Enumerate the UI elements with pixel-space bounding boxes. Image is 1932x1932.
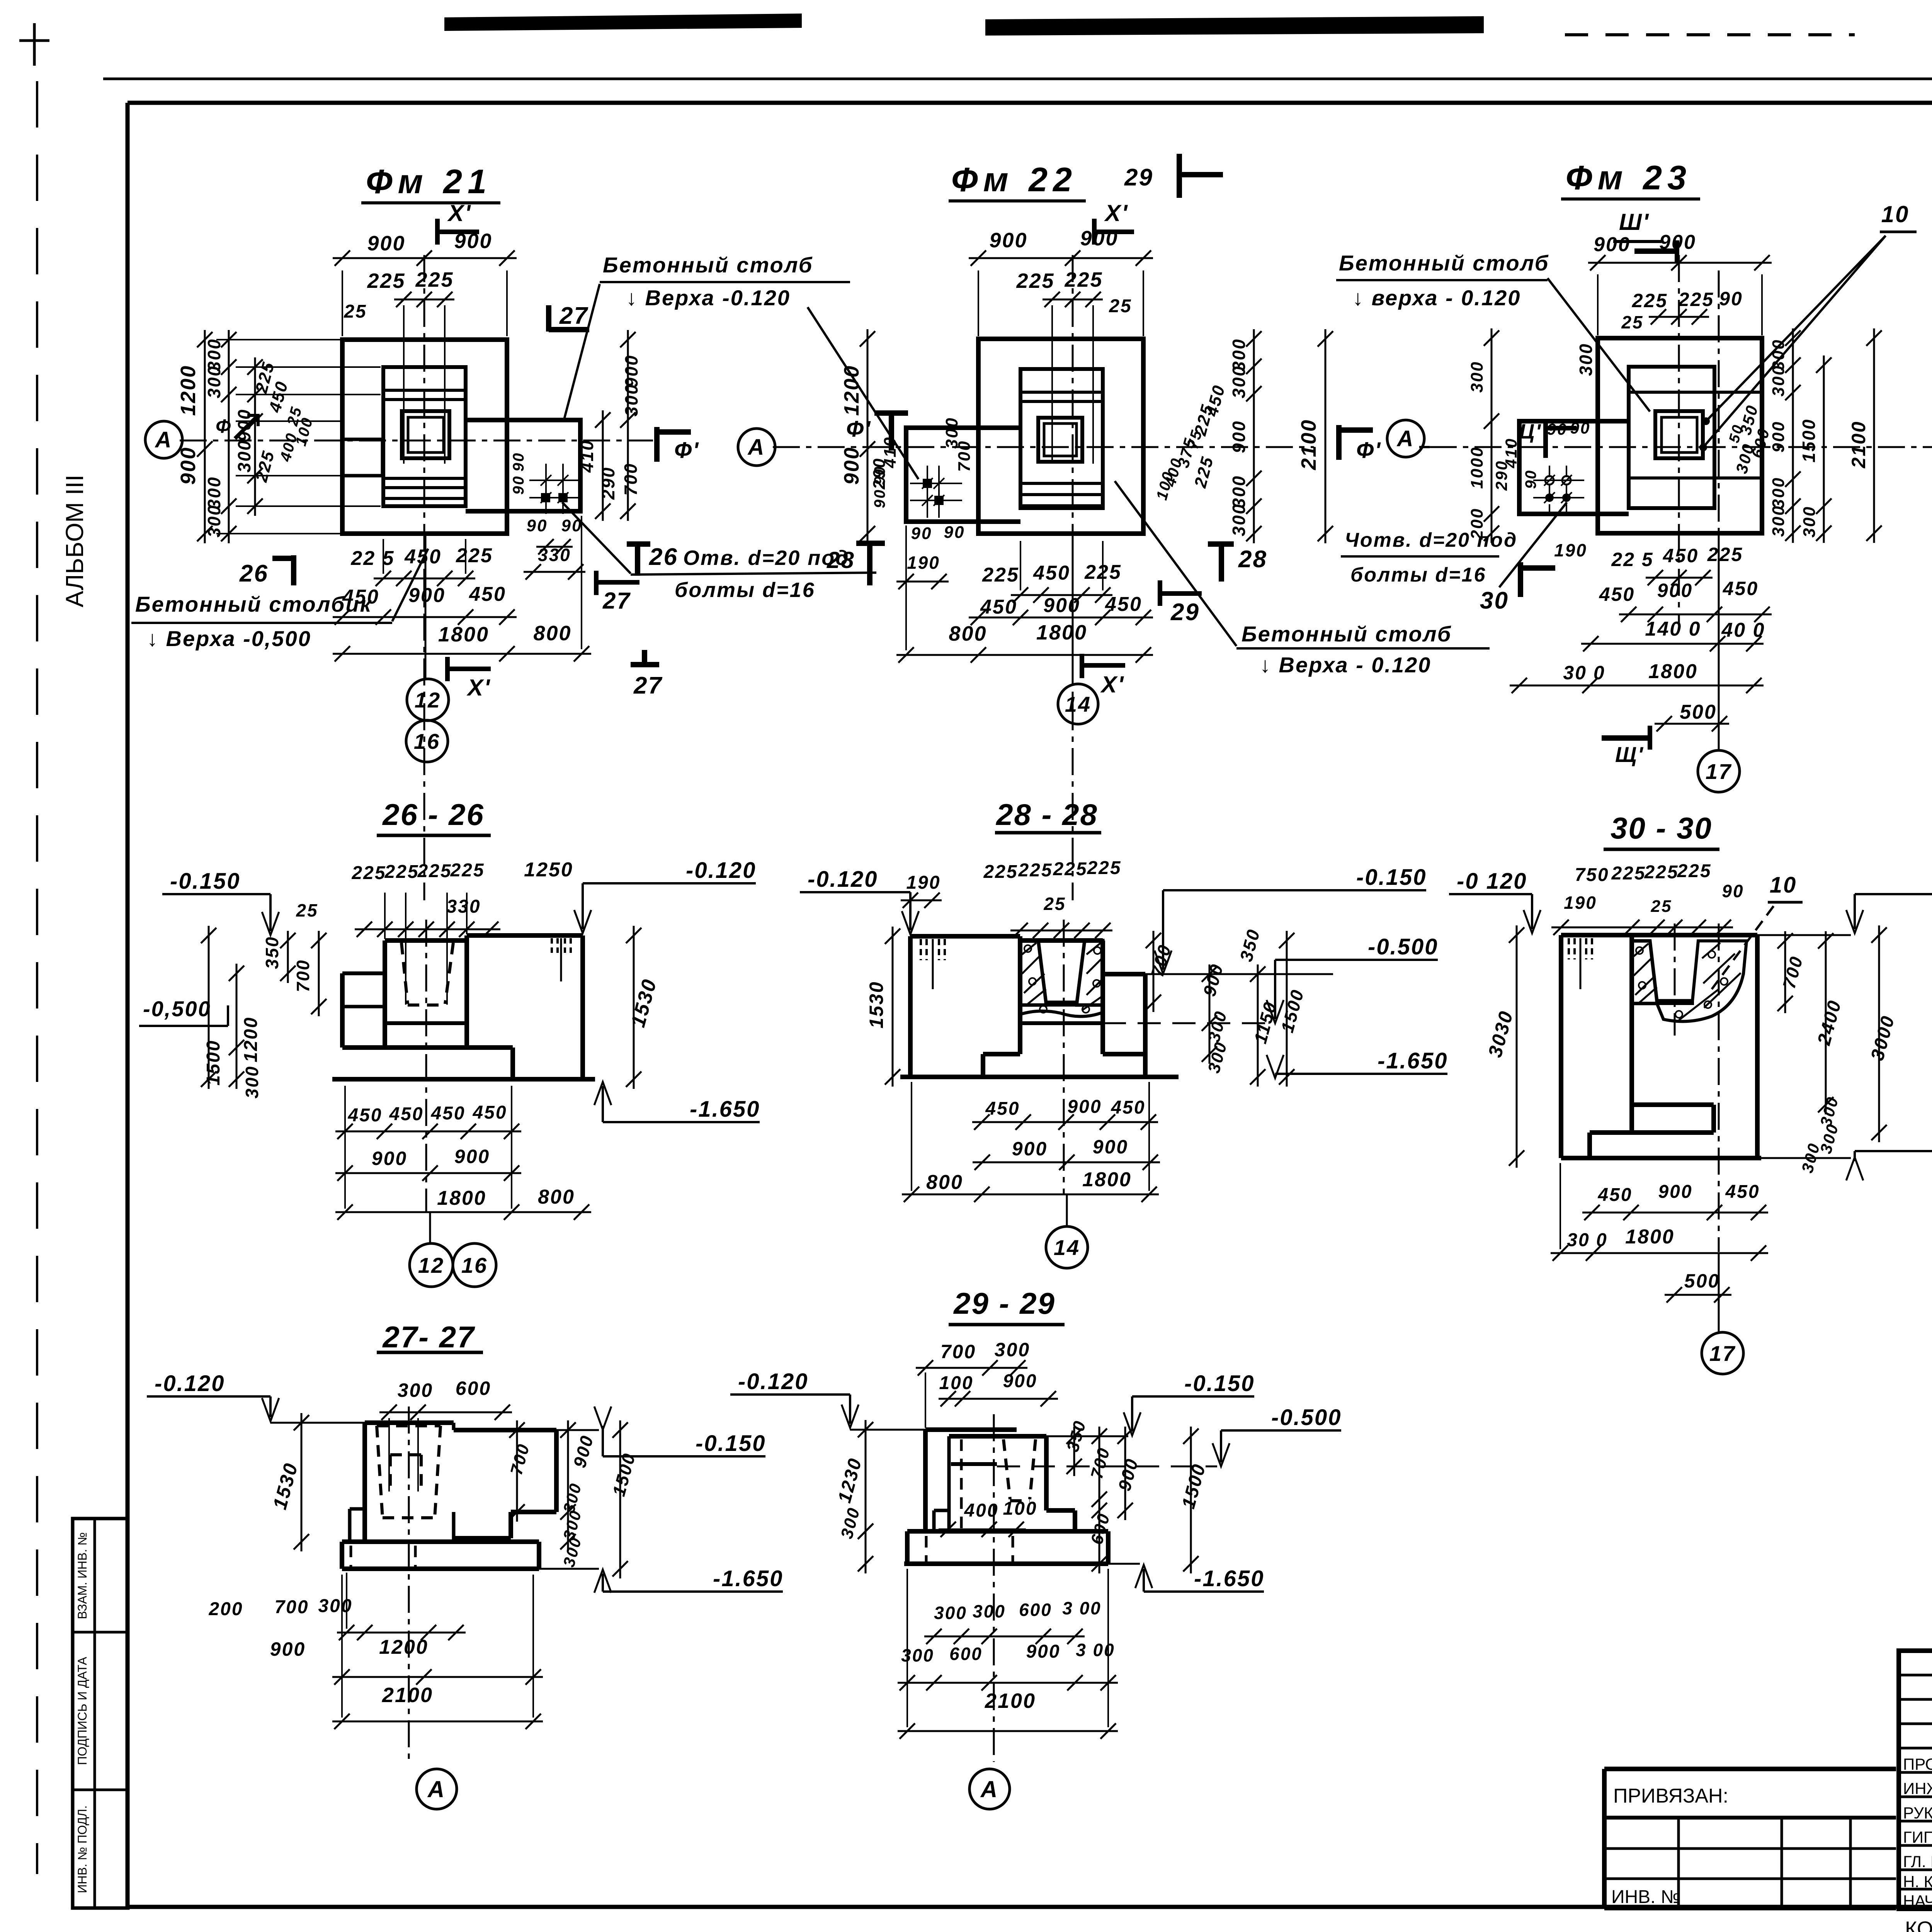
svg-text:↓ Верха -0,500: ↓ Верха -0,500 [147,626,311,651]
svg-text:225: 225 [1677,861,1711,881]
svg-text:800: 800 [926,1171,963,1194]
grid circle A Фм22 [738,429,775,466]
svg-text:800: 800 [538,1186,575,1208]
svg-text:22 5: 22 5 [1611,549,1653,570]
svg-text:-0.150: -0.150 [696,1431,766,1456]
svg-text:28: 28 [1238,546,1267,573]
svg-text:-1.650: -1.650 [713,1566,783,1591]
plan Фм23 left dims [1491,328,1493,543]
section 26-26 axis [425,920,427,1212]
section flag 26 left [291,555,296,585]
svg-text:болты d=16: болты d=16 [675,578,815,602]
svg-text:300: 300 [234,439,254,473]
section 29-29 outline [925,1427,1017,1432]
svg-text:17: 17 [1706,759,1732,784]
svg-text:900: 900 [367,232,405,255]
svg-text:100: 100 [1003,1498,1037,1519]
svg-text:10: 10 [1770,872,1797,898]
svg-text:29: 29 [1170,599,1200,626]
svg-text:Бетонный столб: Бетонный столб [1339,251,1549,275]
svg-text:400: 400 [964,1500,998,1521]
svg-text:225: 225 [1707,544,1743,565]
svg-text:90: 90 [510,475,527,495]
svg-text:Н. КОНТР: Н. КОНТР [1903,1872,1932,1891]
svg-text:1800: 1800 [437,1187,486,1209]
section flag 28 right [1208,541,1234,547]
section mark X bottom Фм22 [1080,654,1084,678]
svg-text:900: 900 [1012,1138,1048,1160]
svg-text:2100: 2100 [1848,420,1869,468]
svg-text:450: 450 [1033,562,1070,584]
svg-text:900: 900 [1658,1182,1692,1202]
section 28-28 axis [1063,920,1065,1194]
svg-text:ИНЖЕН.: ИНЖЕН. [1903,1779,1932,1798]
svg-text:-0.150: -0.150 [1356,865,1427,890]
svg-text:26: 26 [239,560,269,587]
svg-text:27: 27 [559,303,588,329]
plan Фм23 extension left [1519,421,1629,514]
svg-text:-0.120: -0.120 [686,858,756,883]
section flag 27 bottom [642,650,647,663]
svg-text:140 0: 140 0 [1645,618,1701,640]
svg-text:-0.500: -0.500 [1368,934,1438,959]
svg-text:Фм 22: Фм 22 [951,160,1077,199]
mark Ф arrow left [235,415,258,439]
svg-text:28: 28 [827,547,855,573]
svg-text:450: 450 [1723,578,1759,599]
svg-text:НАЧ. ОТД: НАЧ. ОТД [1903,1892,1932,1910]
svg-text:225: 225 [1087,858,1121,878]
mark Ф prime right Фм22 [1336,425,1342,460]
plan Фм23 column glass [1655,411,1703,458]
svg-text:450: 450 [347,1105,382,1126]
svg-text:225: 225 [450,860,485,881]
svg-text:А: А [155,427,173,452]
grid circles 12 16 below Фм21 [425,534,427,679]
svg-text:225: 225 [1016,269,1054,293]
svg-text:АЛЬБОМ III: АЛЬБОМ III [61,474,88,607]
svg-text:190: 190 [1564,893,1597,913]
svg-text:ГИП: ГИП [1903,1828,1932,1846]
svg-text:200: 200 [208,1599,243,1619]
svg-text:190: 190 [1554,540,1587,560]
section 30-30 ground marks [1568,938,1570,959]
svg-text:90: 90 [944,523,965,542]
svg-text:225: 225 [1632,290,1668,311]
svg-text:Ф: Ф [216,415,232,437]
svg-text:800: 800 [533,622,571,645]
section mark X bottom2 [445,657,450,681]
svg-text:90: 90 [1522,469,1539,489]
svg-text:900: 900 [989,229,1027,252]
svg-text:Чотв. d=20 под: Чотв. d=20 под [1345,529,1517,551]
svg-text:900: 900 [408,584,446,607]
svg-text:450: 450 [1597,1185,1632,1205]
svg-text:25: 25 [1621,312,1643,332]
svg-text:X': X' [1100,672,1124,697]
svg-text:25: 25 [296,900,318,920]
svg-text:800: 800 [949,622,987,645]
svg-text:26: 26 [649,544,678,570]
svg-text:300: 300 [1576,343,1596,376]
svg-text:90: 90 [911,524,932,543]
svg-text:900: 900 [1043,594,1080,617]
svg-text:1200: 1200 [840,365,863,416]
left margin dash-dot line [36,81,38,1874]
svg-text:1500: 1500 [203,1040,224,1086]
section 29-29 axis [993,1414,995,1762]
svg-text:1000: 1000 [1468,446,1486,489]
plan Фм23 outline [1598,338,1762,533]
svg-text:10: 10 [1881,201,1910,227]
svg-text:900: 900 [1769,421,1788,452]
svg-text:1530: 1530 [866,981,887,1028]
svg-text:330: 330 [446,896,481,917]
svg-text:ПРОВЕР.: ПРОВЕР. [1903,1755,1932,1773]
mark Ф prime left Фм22 [874,410,908,416]
svg-text:↓ Верха - 0.120: ↓ Верха - 0.120 [1260,653,1431,677]
svg-text:300: 300 [1769,477,1788,509]
plan Фм21 column glass [402,411,449,458]
plan Фм22 pedestal [1020,369,1103,508]
svg-text:450: 450 [1105,593,1142,616]
svg-text:1250: 1250 [524,859,573,881]
svg-text:30 0: 30 0 [1563,662,1605,684]
svg-text:X': X' [447,200,471,226]
svg-text:ИНВ. № ПОДЛ.: ИНВ. № ПОДЛ. [75,1805,89,1893]
svg-text:450: 450 [1725,1182,1760,1202]
svg-text:225: 225 [1018,860,1053,881]
svg-text:КОПИРОВАЛ; ЛОГИНОВА: КОПИРОВАЛ; ЛОГИНОВА [1905,1917,1932,1932]
svg-text:330: 330 [538,545,571,565]
svg-text:-0.120: -0.120 [738,1369,808,1394]
svg-text:450: 450 [1111,1097,1145,1118]
section mark 27 mid [594,571,599,595]
plan Фм22 anchor bolts [922,478,933,489]
svg-text:900: 900 [1093,1136,1128,1158]
svg-text:900: 900 [270,1638,306,1660]
svg-text:ПРИВЯЗАН:: ПРИВЯЗАН: [1613,1785,1728,1807]
svg-text:2100: 2100 [1297,419,1320,470]
svg-text:-0.150: -0.150 [1184,1371,1255,1396]
svg-text:Бетонный столбик: Бетонный столбик [135,592,372,616]
grid circle A below 29-29 [969,1769,1010,1809]
svg-text:225: 225 [417,861,452,881]
svg-text:600: 600 [1019,1600,1052,1620]
plan Фм21 outline [342,340,507,534]
svg-text:22 5: 22 5 [350,547,395,570]
section mark Ш bottom [1602,735,1650,741]
grid circle A [145,421,182,458]
svg-text:2100: 2100 [382,1684,433,1707]
svg-text:Щ': Щ' [1615,742,1644,767]
svg-text:-1.650: -1.650 [690,1097,760,1122]
svg-text:↓ Верха -0.120: ↓ Верха -0.120 [626,286,791,310]
svg-text:300: 300 [204,476,224,509]
svg-text:Отв. d=20 под: Отв. d=20 под [683,546,850,570]
plan Фм21 post [342,439,383,476]
svg-text:ПОДПИСЬ И ДАТА: ПОДПИСЬ И ДАТА [75,1656,89,1765]
section 30-30 pocket hatched [1632,941,1657,1003]
svg-text:300: 300 [1769,365,1788,396]
plan Фм22 inner lines [1020,391,1103,394]
svg-text:900: 900 [372,1148,407,1169]
svg-text:300: 300 [1229,365,1249,398]
svg-text:90: 90 [510,452,527,472]
svg-text:290: 290 [598,466,618,500]
svg-text:300: 300 [398,1379,433,1401]
section 27-27 outline [365,1420,454,1425]
grid circle 17 [1718,533,1720,750]
svg-text:-1.650: -1.650 [1378,1048,1448,1073]
title block [1604,1767,1896,1771]
svg-text:450: 450 [985,1099,1020,1119]
svg-text:90: 90 [1722,881,1744,901]
scan streak 1 [444,14,802,31]
svg-text:190: 190 [907,553,940,573]
grid circle A below 27-27 [417,1769,457,1809]
svg-text:300: 300 [901,1645,934,1665]
svg-text:225: 225 [351,863,386,883]
section 30-30 axes [1674,923,1676,1036]
svg-text:410: 410 [881,436,900,468]
svg-text:225: 225 [982,564,1019,586]
svg-text:↓ верха - 0.120: ↓ верха - 0.120 [1352,286,1521,310]
svg-text:-1.650: -1.650 [1194,1566,1264,1591]
svg-text:А: А [1396,426,1415,451]
svg-text:27- 27: 27- 27 [382,1320,475,1354]
svg-text:30 - 30: 30 - 30 [1611,811,1713,845]
svg-text:225: 225 [415,268,454,291]
svg-text:225: 225 [367,269,405,293]
section 29-29 hidden dashed [1003,1439,1010,1499]
svg-text:410: 410 [577,439,597,473]
svg-text:25: 25 [1109,296,1132,316]
svg-text:25: 25 [1043,894,1066,914]
plan Фм21 left dims [204,330,206,543]
grid circle 14 below 28-28 [1066,1194,1068,1226]
svg-text:1800: 1800 [1036,621,1087,644]
section mark X top [435,219,440,245]
svg-text:300: 300 [1800,506,1819,537]
svg-text:1200: 1200 [177,365,200,416]
svg-text:90: 90 [1570,419,1591,437]
svg-text:900: 900 [1594,233,1631,256]
svg-text:1200: 1200 [379,1636,429,1658]
svg-text:750: 750 [1575,865,1609,885]
svg-text:12: 12 [418,1253,444,1277]
svg-text:900: 900 [1026,1641,1060,1662]
svg-text:Ш': Ш' [1619,209,1650,235]
svg-text:90: 90 [871,489,888,509]
svg-text:190: 190 [906,872,940,893]
svg-text:30: 30 [1480,587,1509,614]
plan Фм21 anchor bolts [541,475,551,486]
svg-text:300: 300 [204,504,224,537]
svg-text:700: 700 [621,463,641,496]
svg-text:ИНВ. №: ИНВ. № [1611,1887,1680,1907]
svg-text:28 - 28: 28 - 28 [995,798,1098,832]
plan Фм22 column glass [1038,418,1082,462]
svg-text:Фм 23: Фм 23 [1566,158,1692,197]
svg-text:ГЛ. КОНСТР: ГЛ. КОНСТР [1903,1852,1932,1871]
svg-text:1800: 1800 [1625,1226,1675,1248]
svg-text:Фм 21: Фм 21 [366,162,492,201]
plan Фм22 outline [978,339,1143,534]
section 26-26 outline [385,938,467,943]
svg-text:25: 25 [344,301,367,322]
section flags 30 [1518,562,1523,597]
grid circle 14 [1072,534,1074,685]
svg-text:900: 900 [1067,1097,1102,1117]
svg-text:900: 900 [621,354,641,388]
svg-text:225: 225 [1611,863,1646,884]
svg-text:410: 410 [1502,437,1520,468]
svg-text:225: 225 [384,862,419,882]
svg-text:225: 225 [456,544,493,567]
svg-text:-0,500: -0,500 [143,997,211,1021]
svg-text:225: 225 [1644,862,1679,883]
svg-text:26 - 26: 26 - 26 [382,798,485,832]
section 27-27 axis [408,1406,410,1762]
svg-text:300: 300 [1229,475,1249,508]
svg-text:27: 27 [602,588,631,614]
svg-text:225: 225 [983,862,1018,882]
plan Фм22 axes [1072,255,1074,900]
section 28-28 ground marks [920,939,922,960]
section 27-27 hidden dashed [377,1424,440,1427]
svg-text:500: 500 [1684,1270,1720,1292]
svg-text:300: 300 [1229,503,1249,536]
svg-text:16: 16 [414,729,440,753]
svg-text:900: 900 [1657,580,1693,601]
svg-text:Ф': Ф' [674,438,699,463]
svg-text:300: 300 [318,1596,352,1616]
section mark X top Фм22 [1092,219,1097,245]
section 26-26 ground marks [551,938,553,954]
svg-text:300: 300 [995,1339,1030,1361]
svg-text:30 0: 30 0 [1567,1230,1607,1250]
svg-text:А: А [427,1776,446,1802]
plan Фм22 right dims [1253,329,1255,543]
svg-text:350: 350 [262,936,282,969]
svg-text:900: 900 [1229,420,1249,453]
svg-text:450: 450 [1599,583,1635,605]
personnel table [1899,1651,1932,1909]
svg-text:300: 300 [1468,361,1486,393]
svg-text:3 00: 3 00 [1062,1598,1102,1618]
svg-text:-0.120: -0.120 [155,1371,225,1396]
sheet frame [128,101,1932,105]
bottom-left stamp strip [73,1519,128,1908]
plan Фм21 extension [466,420,580,511]
svg-text:Бетонный столб: Бетонный столб [1242,622,1452,646]
svg-text:300: 300 [204,365,224,398]
section flag 26 right [635,543,640,576]
section flag 27 top [546,305,551,332]
section 28-28 pocket hatched [1020,940,1046,1005]
svg-text:450: 450 [980,596,1017,618]
section 30-30 outline [1561,933,1757,937]
svg-text:27: 27 [633,672,663,699]
svg-text:16: 16 [461,1253,488,1277]
svg-text:450: 450 [389,1104,423,1124]
plan Фм21 pedestal [383,367,466,506]
svg-text:Бетонный столб: Бетонный столб [603,253,813,277]
svg-text:29 - 29: 29 - 29 [953,1286,1056,1320]
svg-text:300: 300 [934,1603,967,1623]
svg-text:900: 900 [1003,1371,1037,1391]
svg-text:1800: 1800 [1648,660,1698,683]
svg-text:90: 90 [527,516,548,535]
svg-text:14: 14 [1065,692,1091,716]
svg-text:29: 29 [1124,164,1153,191]
svg-text:X': X' [1104,200,1128,226]
svg-text:700: 700 [274,1597,309,1617]
grid circle A Фм23 [1387,420,1424,457]
svg-text:болты d=16: болты d=16 [1350,564,1486,586]
svg-text:300: 300 [1769,505,1788,537]
svg-text:300: 300 [621,383,641,417]
svg-text:17: 17 [1709,1341,1736,1366]
svg-text:Ф': Ф' [1356,438,1381,463]
svg-text:1500: 1500 [1799,418,1819,463]
grid circle 17 below 30-30 [1718,1253,1720,1332]
svg-text:12: 12 [415,688,441,712]
svg-text:А: А [980,1776,998,1802]
svg-text:900: 900 [177,446,200,485]
svg-text:100: 100 [939,1373,973,1393]
svg-text:25: 25 [1651,897,1672,916]
svg-text:700: 700 [293,959,313,992]
plan Фм23 pedestal [1629,367,1714,508]
svg-text:-0.120: -0.120 [808,867,878,892]
svg-text:450: 450 [1663,545,1699,566]
plan Фм23 axes [1678,255,1680,626]
svg-text:600: 600 [949,1644,983,1664]
plan Фм23 anchor bolts [1544,475,1555,486]
svg-text:X': X' [466,675,491,701]
svg-text:-0 120: -0 120 [1457,869,1527,894]
svg-text:600: 600 [456,1378,491,1399]
svg-text:500: 500 [1680,701,1717,723]
section 26-26 glass dashed [401,943,408,1004]
svg-text:700: 700 [940,1341,976,1362]
fold mark top-left [33,23,36,66]
plan Фм21 inner lines [383,389,466,392]
svg-text:450: 450 [469,583,506,605]
svg-text:3 00: 3 00 [1076,1640,1115,1660]
svg-text:300: 300 [973,1601,1006,1621]
plan Фм21 axes [423,255,425,900]
svg-text:-0.150: -0.150 [170,869,240,894]
svg-text:ВЗАМ. ИНВ. №: ВЗАМ. ИНВ. № [75,1532,89,1619]
mark Ф prime right [654,427,660,462]
svg-text:Ц': Ц' [1519,420,1542,443]
svg-text:450: 450 [430,1103,465,1124]
grid circles 12 16 below 26-26 [429,1212,431,1243]
plan Фм22 extension left [906,428,1020,522]
svg-text:1800: 1800 [1082,1168,1132,1191]
svg-text:900: 900 [454,1146,490,1167]
svg-text:14: 14 [1054,1235,1080,1260]
svg-text:900: 900 [840,446,863,485]
svg-text:90: 90 [1547,420,1568,438]
svg-text:300: 300 [942,417,961,449]
svg-text:225: 225 [1053,859,1087,879]
svg-text:300: 300 [242,1065,262,1099]
svg-text:225: 225 [1678,289,1714,310]
